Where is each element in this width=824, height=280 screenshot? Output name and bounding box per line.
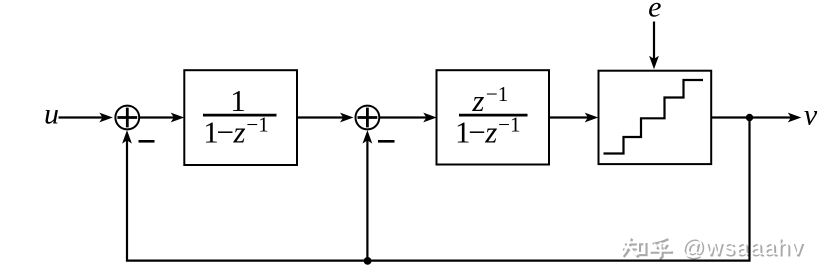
svg-text:u: u [44,97,59,130]
svg-text:1: 1 [230,83,246,118]
svg-text:e: e [648,0,661,24]
svg-text:@wsaaahv: @wsaaahv [681,233,804,259]
svg-text:1−z−1: 1−z−1 [455,112,521,149]
svg-text:1−z−1: 1−z−1 [203,112,269,149]
svg-text:v: v [804,98,818,131]
